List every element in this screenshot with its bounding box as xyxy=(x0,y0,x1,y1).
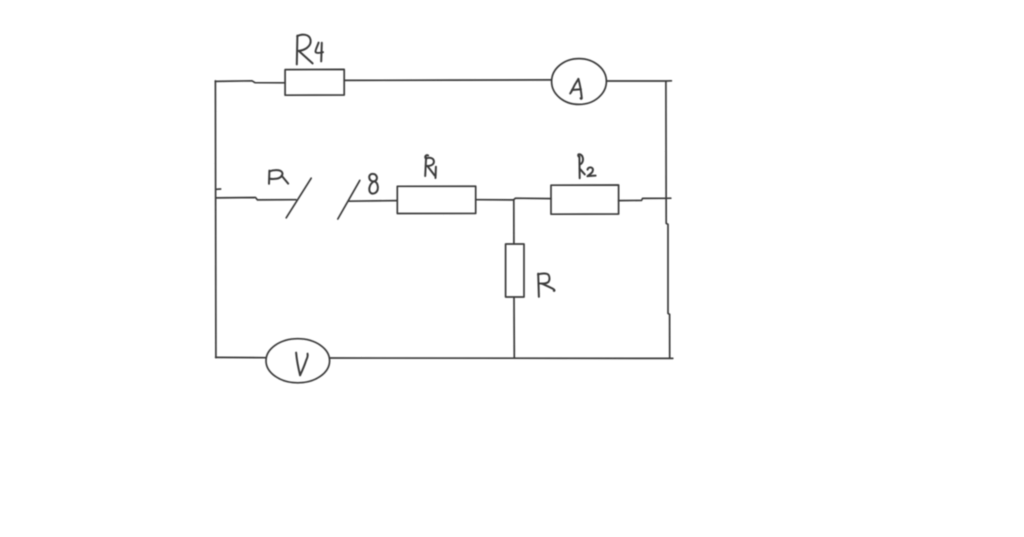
wire top left xyxy=(215,81,285,83)
label R4 xyxy=(297,35,323,65)
wire switch B to R1 xyxy=(349,200,397,203)
tick on left rail xyxy=(216,188,220,190)
resistor R2 xyxy=(551,185,619,214)
wire R1 to junction to R2 xyxy=(476,198,551,200)
wire top right xyxy=(607,80,672,82)
label B xyxy=(369,174,378,194)
wire R2 to right rail xyxy=(619,198,671,200)
wire R to bottom xyxy=(513,297,515,358)
resistor R4 xyxy=(285,69,344,95)
label R2 xyxy=(578,154,595,178)
resistor R vertical xyxy=(506,244,524,297)
label A inside ammeter xyxy=(570,79,582,99)
switch blade A xyxy=(286,178,311,218)
label A at switch xyxy=(269,170,288,184)
wire middle left xyxy=(216,198,296,200)
switch blade B xyxy=(338,180,360,219)
wire right rail xyxy=(666,81,670,357)
voltmeter V xyxy=(266,339,330,383)
label V inside voltmeter xyxy=(296,353,308,376)
label R xyxy=(538,273,555,296)
wire bottom right xyxy=(330,357,673,359)
label R1 xyxy=(425,155,436,178)
wire bottom xyxy=(216,356,266,358)
wire left rail xyxy=(214,81,217,358)
resistor R1 xyxy=(397,186,475,213)
wire top middle xyxy=(344,79,551,82)
ammeter A xyxy=(552,59,607,105)
wire junction down to R xyxy=(513,200,515,244)
